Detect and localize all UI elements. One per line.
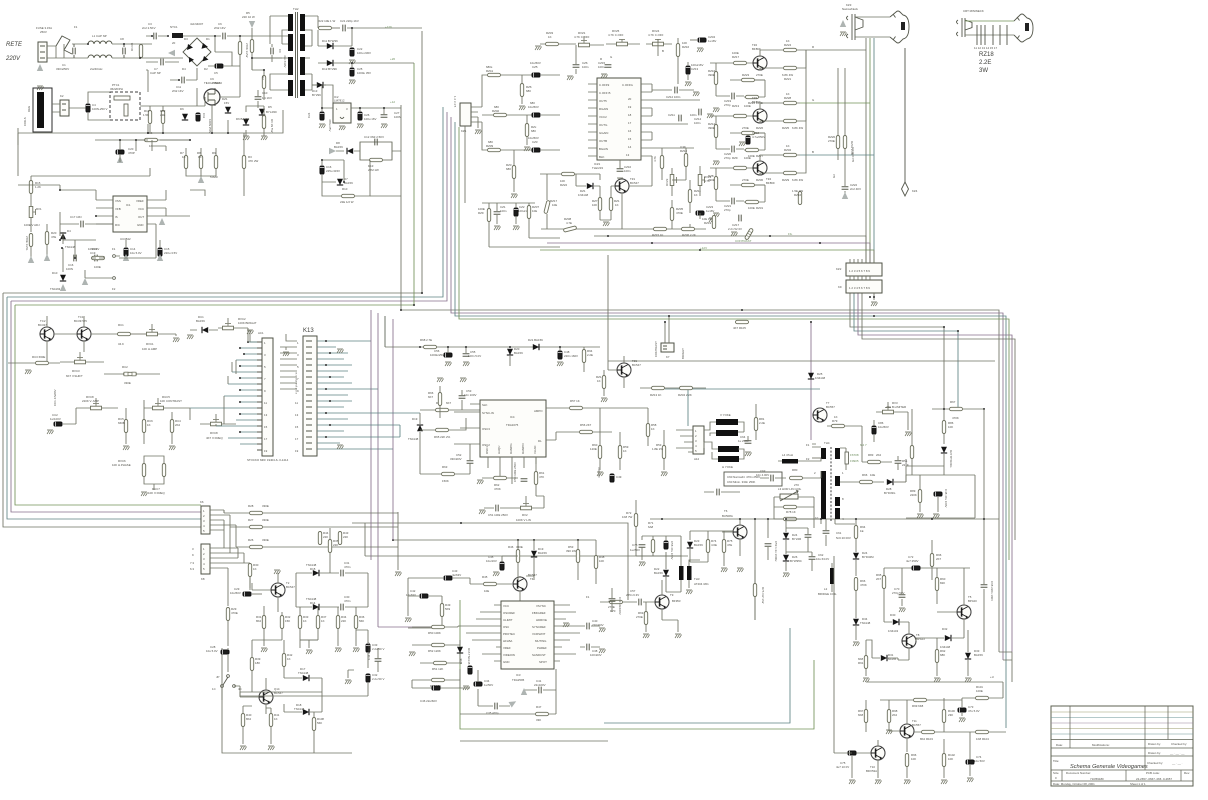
capacitor C17 bbox=[60, 212, 113, 236]
svg-text:D12 BY299: D12 BY299 bbox=[322, 67, 337, 71]
svg-text:A12: A12 bbox=[694, 457, 700, 461]
svg-text:VCRSWIT: VCRSWIT bbox=[532, 632, 546, 636]
capacitor C72 bbox=[906, 555, 920, 570]
junction supply row bbox=[419, 346, 421, 348]
capacitor CZ5 bbox=[530, 61, 560, 77]
svg-text:R67: R67 bbox=[950, 400, 956, 404]
resistor R95 bbox=[876, 568, 886, 600]
svg-text:R66: R66 bbox=[862, 473, 868, 477]
svg-text:390E: 390E bbox=[708, 73, 715, 77]
diode D28 BYD33G bbox=[884, 479, 906, 495]
svg-text:R68 2.7E: R68 2.7E bbox=[420, 338, 432, 342]
connector A12 bbox=[676, 426, 704, 461]
resistor RC1 bbox=[118, 323, 147, 346]
svg-text:C50 100k 250V: C50 100k 250V bbox=[513, 462, 517, 482]
svg-text:V YOKE: V YOKE bbox=[720, 413, 731, 417]
flyback pin F1 bbox=[806, 443, 821, 447]
svg-text:120E: 120E bbox=[590, 447, 597, 451]
svg-text:BRIGHT: BRIGHT bbox=[681, 348, 685, 359]
svg-text:VCC: VCC bbox=[138, 207, 144, 211]
svg-text:AC1: AC1 bbox=[258, 331, 264, 335]
resistor RZ22b bbox=[540, 172, 600, 187]
svg-text:NarrowNeck: NarrowNeck bbox=[842, 7, 858, 11]
resistor R91 bbox=[858, 640, 870, 682]
capacitor C4 bbox=[86, 92, 110, 120]
svg-text:R28: R28 bbox=[248, 504, 254, 508]
svg-text:GGAIN: GGAIN bbox=[599, 131, 608, 135]
capacitor CZ18 bbox=[739, 131, 765, 146]
capacitor C45 bbox=[486, 555, 518, 576]
svg-text:BP420: BP420 bbox=[968, 599, 977, 603]
svg-text:1u 250V: 1u 250V bbox=[738, 439, 749, 443]
svg-text:D2: D2 bbox=[204, 67, 208, 71]
pot RVZ1 bbox=[574, 31, 604, 47]
svg-text:4.7E: 4.7E bbox=[566, 221, 572, 225]
svg-text:C.OFF B: C.OFF B bbox=[599, 91, 610, 95]
svg-text:2: 2 bbox=[814, 471, 816, 475]
svg-text:T4: T4 bbox=[530, 577, 534, 581]
svg-text:1K: 1K bbox=[147, 423, 151, 427]
svg-text:2K7: 2K7 bbox=[876, 577, 882, 581]
transistor TZ1 bbox=[615, 177, 640, 193]
net arrow +rail bbox=[249, 21, 255, 28]
wire mid power rail bbox=[18, 110, 283, 145]
resistor RZ17a slant bbox=[544, 174, 558, 229]
svg-text:220K V. AMP: 220K V. AMP bbox=[82, 399, 99, 403]
resistor R10 bbox=[340, 160, 370, 204]
svg-text:22K: 22K bbox=[333, 543, 338, 547]
svg-text:270p: 270p bbox=[724, 208, 731, 212]
pot RV24 bbox=[646, 29, 672, 56]
svg-text:VCC: VCC bbox=[503, 604, 509, 608]
svg-text:OSCREF: OSCREF bbox=[503, 611, 515, 615]
K13 fan junction dots bbox=[325, 340, 331, 438]
svg-text:R52 120K: R52 120K bbox=[428, 649, 441, 653]
junction 12V rail bbox=[392, 522, 579, 541]
svg-text:RZ9: RZ9 bbox=[732, 156, 738, 160]
svg-text:+U: +U bbox=[990, 675, 994, 679]
svg-text:BY22R: BY22R bbox=[792, 537, 801, 541]
svg-text:4K7 R105: 4K7 R105 bbox=[733, 326, 746, 330]
svg-text:D6: D6 bbox=[180, 107, 184, 111]
capacitor C63 bbox=[756, 469, 786, 481]
svg-text:100N: 100N bbox=[66, 267, 73, 271]
svg-text:22K B.LIMITER: 22K B.LIMITER bbox=[886, 405, 906, 409]
resistor R11 bbox=[143, 106, 152, 133]
svg-text:100n: 100n bbox=[690, 113, 697, 117]
svg-text:1K8 7W: 1K8 7W bbox=[622, 515, 633, 519]
transistor TC1 bbox=[74, 315, 91, 341]
diode D18 bbox=[284, 703, 322, 715]
svg-text:1N4148: 1N4148 bbox=[578, 193, 589, 197]
svg-text:F1: F1 bbox=[74, 25, 78, 29]
capacitor C9a bbox=[206, 77, 220, 85]
zener DZ1 bbox=[222, 97, 231, 113]
svg-text:4u7 10 0V: 4u7 10 0V bbox=[836, 765, 849, 769]
diode D17 bbox=[284, 667, 322, 681]
test point F1 bbox=[112, 247, 116, 257]
wire bus: left nested loop top edge bbox=[3, 31, 422, 527]
svg-text:OSC: OSC bbox=[503, 625, 509, 629]
pot RVC1 bbox=[142, 324, 180, 351]
junction dots bus bbox=[400, 292, 959, 332]
resistor R104 bbox=[944, 730, 1006, 741]
wire bus: K9 harness line 2 bbox=[854, 293, 958, 409]
pot RV3 bbox=[876, 401, 906, 414]
ground stage G bbox=[713, 161, 720, 165]
svg-text:STOCKO MKF 19404-6- 0-1414: STOCKO MKF 19404-6- 0-1414 bbox=[247, 458, 289, 462]
svg-text:3: 3 bbox=[297, 353, 299, 357]
junction bus k13 bbox=[687, 388, 689, 390]
junction dots B+ rail bbox=[661, 518, 985, 520]
resistor R63 bbox=[420, 444, 470, 483]
diode DZ1b bbox=[576, 174, 600, 197]
svg-text:330E: 330E bbox=[124, 381, 131, 385]
svg-text:RZ23: RZ23 bbox=[742, 73, 749, 77]
resistor R66 10E bbox=[840, 473, 884, 484]
svg-text:B: B bbox=[662, 49, 664, 53]
resistor RZ15 bbox=[652, 227, 667, 237]
svg-text:2N2 1KV: 2N2 1KV bbox=[214, 26, 226, 30]
svg-text:15: 15 bbox=[628, 137, 632, 141]
svg-text:220u 3.5V: 220u 3.5V bbox=[164, 251, 177, 255]
resistor RZ12 bbox=[708, 116, 718, 149]
capacitor C43 bbox=[432, 569, 470, 580]
capacitor C16b bbox=[66, 255, 76, 271]
svg-text:100N-250 V: 100N-250 V bbox=[92, 107, 107, 111]
diode D6a bbox=[180, 107, 188, 120]
svg-text:19: 19 bbox=[628, 105, 632, 109]
svg-text:IC3: IC3 bbox=[516, 673, 521, 677]
ground stage B bbox=[713, 213, 720, 217]
resistor R60 bbox=[590, 408, 602, 470]
pot RVC8b bbox=[200, 414, 236, 440]
svg-text:1K8 R104: 1K8 R104 bbox=[976, 737, 989, 741]
svg-text:TH4: TH4 bbox=[824, 441, 830, 445]
wire R7R8R9 bottom bbox=[186, 148, 216, 182]
net arrow mains bbox=[37, 64, 43, 71]
pot RV2 bbox=[516, 496, 544, 522]
svg-text:RZ22: RZ22 bbox=[560, 183, 567, 187]
resistor R4 vertical bbox=[238, 36, 249, 75]
svg-text:D4: D4 bbox=[182, 67, 186, 71]
svg-text:470E: 470E bbox=[676, 211, 683, 215]
label C60 box bbox=[724, 472, 782, 486]
drawn by row bbox=[1051, 755, 1193, 757]
capacitor C61 bbox=[823, 519, 851, 546]
svg-text:BA159: BA159 bbox=[196, 319, 205, 323]
svg-text:20: 20 bbox=[172, 41, 176, 45]
resistor R41 bbox=[266, 708, 280, 750]
capacitor CZ17 bbox=[728, 215, 742, 231]
resistor R86 bbox=[942, 421, 953, 445]
title block column dividers bbox=[1070, 706, 1168, 756]
svg-text:RZ31: RZ31 bbox=[756, 206, 763, 210]
ground T9 bbox=[662, 620, 682, 638]
capacitor C50 bbox=[513, 462, 527, 482]
ground pair below bbox=[437, 378, 444, 382]
capacitor C78 bbox=[630, 536, 646, 566]
resistor R37 bbox=[316, 607, 326, 640]
junction D25 top bbox=[810, 321, 812, 323]
transistor T8 bbox=[902, 622, 925, 660]
svg-text:Drawn by:: Drawn by: bbox=[1148, 742, 1161, 746]
transistor T11 bbox=[889, 700, 921, 752]
wire focus line bbox=[844, 68, 846, 182]
capacitor C11b bbox=[196, 113, 212, 134]
wire driver top bbox=[636, 536, 681, 556]
capacitor C12 loop bbox=[360, 135, 392, 160]
capacitor CZ23 bbox=[696, 205, 716, 222]
svg-text:C51 100k 250V: C51 100k 250V bbox=[488, 513, 508, 517]
svg-text:JP: JP bbox=[216, 675, 219, 679]
flyback pin numbers bbox=[814, 471, 844, 521]
svg-text:L1 CAP NP: L1 CAP NP bbox=[92, 34, 107, 38]
svg-text:G2: G2 bbox=[832, 174, 836, 178]
capacitor C24 electrolytic bbox=[307, 108, 332, 131]
svg-text:Title:: Title: bbox=[1053, 759, 1059, 763]
ground R60 bbox=[597, 472, 604, 476]
capacitor CZ13 bbox=[685, 62, 703, 86]
svg-text:K8: K8 bbox=[201, 577, 205, 581]
svg-text:R79: R79 bbox=[832, 419, 838, 423]
fuse F1 bbox=[36, 25, 88, 58]
resistor R9 bbox=[210, 151, 218, 179]
svg-text:23K: 23K bbox=[948, 713, 953, 717]
svg-text:BF869: BF869 bbox=[766, 181, 775, 185]
svg-text:RC2: RC2 bbox=[122, 365, 128, 369]
resistor RZ35 bbox=[670, 207, 683, 221]
svg-text:OUT: OUT bbox=[138, 215, 144, 219]
svg-text:330E: 330E bbox=[262, 504, 269, 508]
svg-text:2K7: 2K7 bbox=[936, 557, 942, 561]
svg-text:6.8K 4W: 6.8K 4W bbox=[792, 126, 803, 130]
wire G mid links bbox=[408, 576, 534, 628]
wire controls risers bbox=[216, 328, 248, 426]
transistor T9 BF953 bbox=[648, 580, 681, 620]
svg-text:TH3: TH3 bbox=[694, 577, 700, 581]
svg-text:BYD33G: BYD33G bbox=[884, 491, 896, 495]
svg-text:RZ16: RZ16 bbox=[682, 45, 689, 49]
svg-text:10u 5.0V: 10u 5.0V bbox=[130, 251, 142, 255]
svg-text:10u/50V: 10u/50V bbox=[528, 105, 539, 109]
diamond KZ4 bbox=[902, 182, 918, 196]
wire lower loop 1 bbox=[604, 628, 790, 723]
capacitor C46 bbox=[420, 686, 440, 703]
svg-text:DEG: DEG bbox=[27, 105, 31, 112]
svg-text:8K2: 8K2 bbox=[246, 717, 252, 721]
diode D15 bbox=[296, 563, 330, 576]
resistor R76 bbox=[753, 570, 765, 620]
svg-text:KZ2: KZ2 bbox=[836, 267, 842, 271]
RGB output stage G: resistor RZ13 bbox=[710, 104, 753, 118]
svg-text:270E: 270E bbox=[636, 615, 643, 619]
resistor R46 bbox=[508, 540, 523, 576]
svg-text:8K2: 8K2 bbox=[256, 619, 262, 623]
diode DC1 bbox=[187, 315, 218, 339]
resistor R71 bbox=[648, 521, 655, 556]
resistor R49 bbox=[440, 596, 450, 628]
net arrow R8 bbox=[198, 176, 204, 183]
resistor RZ38 slant bbox=[563, 217, 576, 232]
svg-text:22E: 22E bbox=[160, 113, 165, 117]
svg-text:BU508A: BU508A bbox=[722, 514, 733, 518]
capacitor C8 bbox=[120, 37, 125, 58]
svg-text:20: 20 bbox=[628, 97, 632, 101]
capacitor C48c bbox=[933, 489, 948, 518]
ground T6 bbox=[737, 568, 744, 572]
svg-text:470K: 470K bbox=[952, 416, 959, 420]
resistor R75 bbox=[722, 531, 732, 566]
transistor Q14 bbox=[240, 678, 283, 714]
svg-text:4.7K: 4.7K bbox=[653, 156, 657, 162]
diode D12 bbox=[318, 60, 414, 71]
svg-text:PCB code:: PCB code: bbox=[1146, 771, 1160, 775]
svg-text:470n: 470n bbox=[344, 565, 351, 569]
svg-text:470K: 470K bbox=[494, 487, 501, 491]
svg-text:BA159: BA159 bbox=[974, 653, 983, 657]
svg-text:15: 15 bbox=[264, 425, 268, 429]
transistor TZ2 bbox=[752, 43, 767, 70]
resistor RZ9 bbox=[478, 203, 491, 247]
svg-text:100n63V: 100n63V bbox=[590, 653, 602, 657]
wire H bus tails bbox=[999, 652, 1012, 682]
svg-text:G: G bbox=[812, 98, 815, 102]
capacitor C47 bbox=[459, 658, 472, 674]
resistor R32 bbox=[280, 612, 290, 640]
pot RV25 bbox=[606, 29, 640, 46]
svg-text:B: B bbox=[812, 150, 814, 154]
resistor R108 bbox=[312, 712, 324, 753]
resistor RZ23 bbox=[730, 73, 765, 82]
svg-text:R76 1W 1/W: R76 1W 1/W bbox=[761, 587, 765, 604]
svg-text:RZ25: RZ25 bbox=[782, 126, 789, 130]
svg-text:4x1N4007: 4x1N4007 bbox=[190, 22, 204, 26]
wire PTC to T1 bbox=[140, 70, 205, 106]
svg-text:VCC2: VCC2 bbox=[599, 115, 607, 119]
svg-text:10n 100V: 10n 100V bbox=[464, 393, 476, 397]
svg-text:IS: IS bbox=[115, 215, 118, 219]
svg-text:14: 14 bbox=[628, 145, 632, 149]
svg-text:47K 2W: 47K 2W bbox=[248, 159, 259, 163]
svg-text:RZ16: RZ16 bbox=[794, 193, 801, 197]
svg-text:TH2: TH2 bbox=[293, 7, 299, 11]
resistor R34 bbox=[335, 607, 347, 652]
svg-text:R10: R10 bbox=[342, 187, 348, 191]
resistor R66d bbox=[428, 386, 442, 418]
svg-text:D30: D30 bbox=[890, 613, 896, 617]
svg-text:BA159: BA159 bbox=[538, 551, 547, 555]
svg-text:100E V ADJ: 100E V ADJ bbox=[24, 223, 40, 227]
svg-text:RVC3: RVC3 bbox=[72, 369, 80, 373]
svg-text:100E: 100E bbox=[748, 206, 755, 210]
svg-text:RZ32: RZ32 bbox=[784, 148, 791, 152]
capacitor C51 bbox=[479, 505, 518, 517]
wire K6K8 links bbox=[224, 510, 398, 590]
svg-text:BF953: BF953 bbox=[672, 599, 681, 603]
transistor T5 bbox=[937, 568, 977, 630]
wire IC1 pins left bbox=[95, 190, 97, 224]
svg-text:RAMPO: RAMPO bbox=[521, 443, 525, 454]
svg-text:AT404 3/01: AT404 3/01 bbox=[694, 582, 709, 586]
svg-text:1000u/25V: 1000u/25V bbox=[430, 353, 444, 357]
capacitor C15 bbox=[157, 247, 177, 261]
svg-text:1 2 3 4 5 6 7 8 9: 1 2 3 4 5 6 7 8 9 bbox=[849, 286, 870, 290]
capacitor C35 bbox=[478, 689, 518, 715]
resistor R42 bbox=[282, 640, 292, 678]
svg-text:16: 16 bbox=[628, 129, 632, 133]
svg-text:1K: 1K bbox=[274, 717, 278, 721]
wire net to D25 bbox=[810, 322, 812, 440]
diode D30 bbox=[884, 600, 909, 633]
diode D19 bbox=[408, 413, 423, 444]
svg-text:R9: R9 bbox=[212, 151, 216, 155]
resistor RZ26 bbox=[730, 126, 765, 135]
resistor R59 bbox=[618, 432, 628, 470]
capacitor C34 bbox=[463, 670, 493, 690]
svg-text:2n2 2.5KV: 2n2 2.5KV bbox=[142, 26, 156, 30]
svg-text:660B: 660B bbox=[118, 421, 125, 425]
svg-text:100u 16V: 100u 16V bbox=[364, 117, 376, 121]
svg-text:C.OFFG: C.OFFG bbox=[622, 83, 634, 87]
resistor R81 bbox=[754, 404, 765, 440]
diode D31 bbox=[872, 653, 898, 661]
svg-text:FBKGREF: FBKGREF bbox=[532, 611, 546, 615]
resistor R15 bbox=[29, 176, 41, 204]
degauss coil bbox=[23, 88, 52, 132]
resistor RZ37 bbox=[843, 136, 854, 155]
wire RZ15 row line bbox=[541, 228, 706, 230]
resistor RZ28 bbox=[760, 92, 815, 109]
svg-text:+26: +26 bbox=[390, 57, 395, 61]
svg-text:BC557: BC557 bbox=[826, 405, 835, 409]
svg-text:22K 10 W: 22K 10 W bbox=[242, 15, 255, 19]
svg-text:+12V: +12V bbox=[700, 246, 707, 250]
diode D14 bbox=[296, 573, 330, 610]
resistor RZ4 bbox=[653, 156, 664, 169]
svg-text:470K: 470K bbox=[860, 583, 867, 587]
svg-text:F1: F1 bbox=[806, 443, 810, 447]
svg-text:H YOKE: H YOKE bbox=[722, 465, 733, 469]
svg-text:33K: 33K bbox=[536, 718, 541, 722]
svg-text:10K H.AMP: 10K H.AMP bbox=[142, 347, 157, 351]
svg-text:RZ29: RZ29 bbox=[782, 178, 789, 182]
wire KZ2 K9 pins bbox=[850, 236, 874, 280]
wire bus: third nested line bbox=[11, 112, 447, 512]
svg-text:C61: C61 bbox=[836, 531, 842, 535]
svg-text:1K: 1K bbox=[597, 379, 601, 383]
svg-text:VSYNC: VSYNC bbox=[536, 604, 546, 608]
svg-text:470n: 470n bbox=[344, 599, 351, 603]
wire stage outputs join bbox=[805, 50, 807, 155]
svg-text:220n 160V: 220n 160V bbox=[564, 354, 578, 358]
svg-text:C10: C10 bbox=[262, 91, 268, 95]
svg-text:RZ17: RZ17 bbox=[732, 55, 739, 59]
wire flyback bottom bbox=[786, 519, 855, 532]
svg-text:100n: 100n bbox=[694, 121, 701, 125]
svg-text:10u 50V: 10u 50V bbox=[974, 759, 985, 763]
svg-text:D5: D5 bbox=[268, 105, 272, 109]
resistor RC3 bbox=[8, 355, 60, 374]
svg-text:R83: R83 bbox=[868, 453, 874, 457]
ground HDRIVE bbox=[563, 623, 570, 627]
capacitor C21 bbox=[340, 19, 422, 31]
wire R38 line bbox=[352, 523, 628, 600]
resistor RC5 bbox=[118, 408, 130, 450]
svg-text:C4b: C4b bbox=[459, 658, 463, 664]
ground mains bbox=[37, 86, 44, 90]
svg-text:MUTING: MUTING bbox=[535, 639, 547, 643]
